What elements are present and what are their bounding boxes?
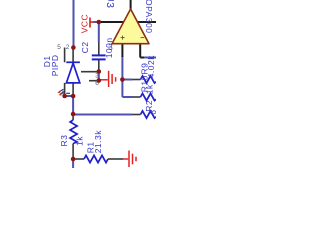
svg-text:2: 2 (66, 44, 70, 51)
svg-text:1k: 1k (145, 84, 155, 94)
svg-text:4.02k: 4.02k (146, 55, 156, 79)
svg-text:6: 6 (95, 80, 99, 87)
svg-text:5: 5 (57, 44, 61, 51)
svg-text:OPA300: OPA300 (144, 0, 154, 34)
svg-text:1k: 1k (75, 136, 85, 146)
svg-text:3: 3 (95, 72, 99, 79)
svg-text:PIPD: PIPD (50, 54, 60, 76)
svg-text:21.3k: 21.3k (93, 130, 103, 154)
svg-text:U3: U3 (104, 0, 116, 8)
svg-text:6: 6 (148, 110, 156, 115)
svg-text:R3: R3 (59, 135, 69, 147)
svg-text:3: 3 (108, 43, 113, 52)
svg-text:4: 4 (61, 90, 65, 97)
svg-text:VCC: VCC (79, 14, 89, 33)
svg-text:C2: C2 (80, 41, 90, 53)
